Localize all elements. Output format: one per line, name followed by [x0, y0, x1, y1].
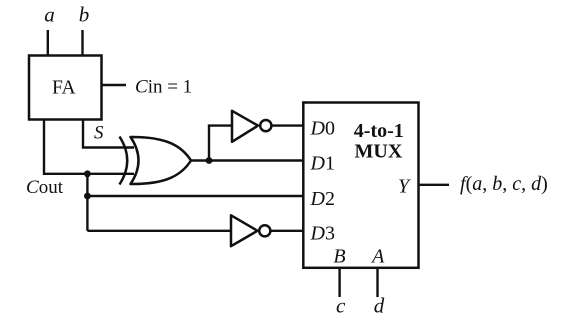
input d label: [374, 294, 385, 318]
wire D3 row to inverter: [87, 230, 232, 232]
svg-text:D0: D0: [310, 117, 335, 139]
inverter bottom bubble: [259, 225, 270, 236]
svg-text:a: a: [44, 3, 55, 27]
input c label: [336, 294, 346, 318]
svg-text:b: b: [79, 3, 90, 27]
svg-text:c: c: [336, 294, 346, 318]
junction dot on D2 row: [84, 193, 91, 200]
wire bottom inverter to MUX D3: [270, 230, 305, 232]
pin D3 label: [310, 223, 335, 245]
wire Cin: [102, 84, 127, 86]
wire vertical from Cout junction down to D3 row: [86, 174, 88, 231]
MUX title MUX: [355, 141, 403, 163]
Cin = 1 label: [135, 77, 192, 98]
svg-text:A: A: [370, 246, 385, 268]
svg-text:D2: D2: [310, 188, 335, 210]
full adder FA box: [29, 56, 102, 120]
svg-text:MUX: MUX: [355, 141, 403, 163]
wire Y output: [419, 184, 450, 186]
svg-text:f(a, b, c, d): f(a, b, c, d): [460, 173, 548, 195]
wire input b: [81, 30, 83, 56]
XOR gate body: [131, 137, 192, 184]
svg-text:Cout: Cout: [26, 177, 64, 198]
wire select A: [376, 268, 378, 297]
output f(a, b, c, d) label: [460, 173, 548, 195]
inverter bottom triangle: [231, 215, 258, 246]
pin B label: [333, 246, 345, 268]
input b label: [79, 3, 90, 27]
svg-text:D1: D1: [310, 152, 335, 174]
pin D1 label: [310, 152, 335, 174]
wire input a: [47, 30, 49, 56]
inverter top bubble: [260, 120, 271, 131]
node S label: [94, 123, 104, 144]
MUX title 4-to-1: [354, 120, 404, 142]
input a label: [44, 3, 55, 27]
junction dot on Cout line: [84, 170, 91, 177]
pin Y label: [398, 176, 411, 198]
wire select B: [338, 268, 340, 297]
4-to-1 MUX box: [303, 103, 418, 268]
svg-text:Cin = 1: Cin = 1: [135, 77, 192, 98]
wire riser to top inverter: [209, 126, 232, 161]
svg-text:4-to-1: 4-to-1: [354, 120, 404, 142]
wire XOR output to MUX D1: [191, 159, 305, 161]
pin A label: [370, 246, 385, 268]
FA label: [52, 78, 75, 99]
junction dot on XOR output: [206, 157, 213, 164]
svg-text:B: B: [333, 246, 345, 268]
node Cout label: [26, 177, 64, 198]
wire S from FA: [83, 120, 134, 148]
pin D0 label: [310, 117, 335, 139]
svg-text:D3: D3: [310, 223, 335, 245]
svg-text:Y: Y: [398, 176, 411, 198]
wire D2 row to MUX: [87, 195, 304, 197]
wire Cout from FA: [44, 120, 134, 174]
svg-text:S: S: [94, 123, 104, 144]
svg-text:d: d: [374, 294, 385, 318]
pin D2 label: [310, 188, 335, 210]
XOR gate back arc: [120, 137, 128, 185]
inverter top triangle: [232, 111, 258, 142]
svg-text:FA: FA: [52, 78, 75, 99]
wire top inverter to MUX D0: [271, 124, 305, 126]
